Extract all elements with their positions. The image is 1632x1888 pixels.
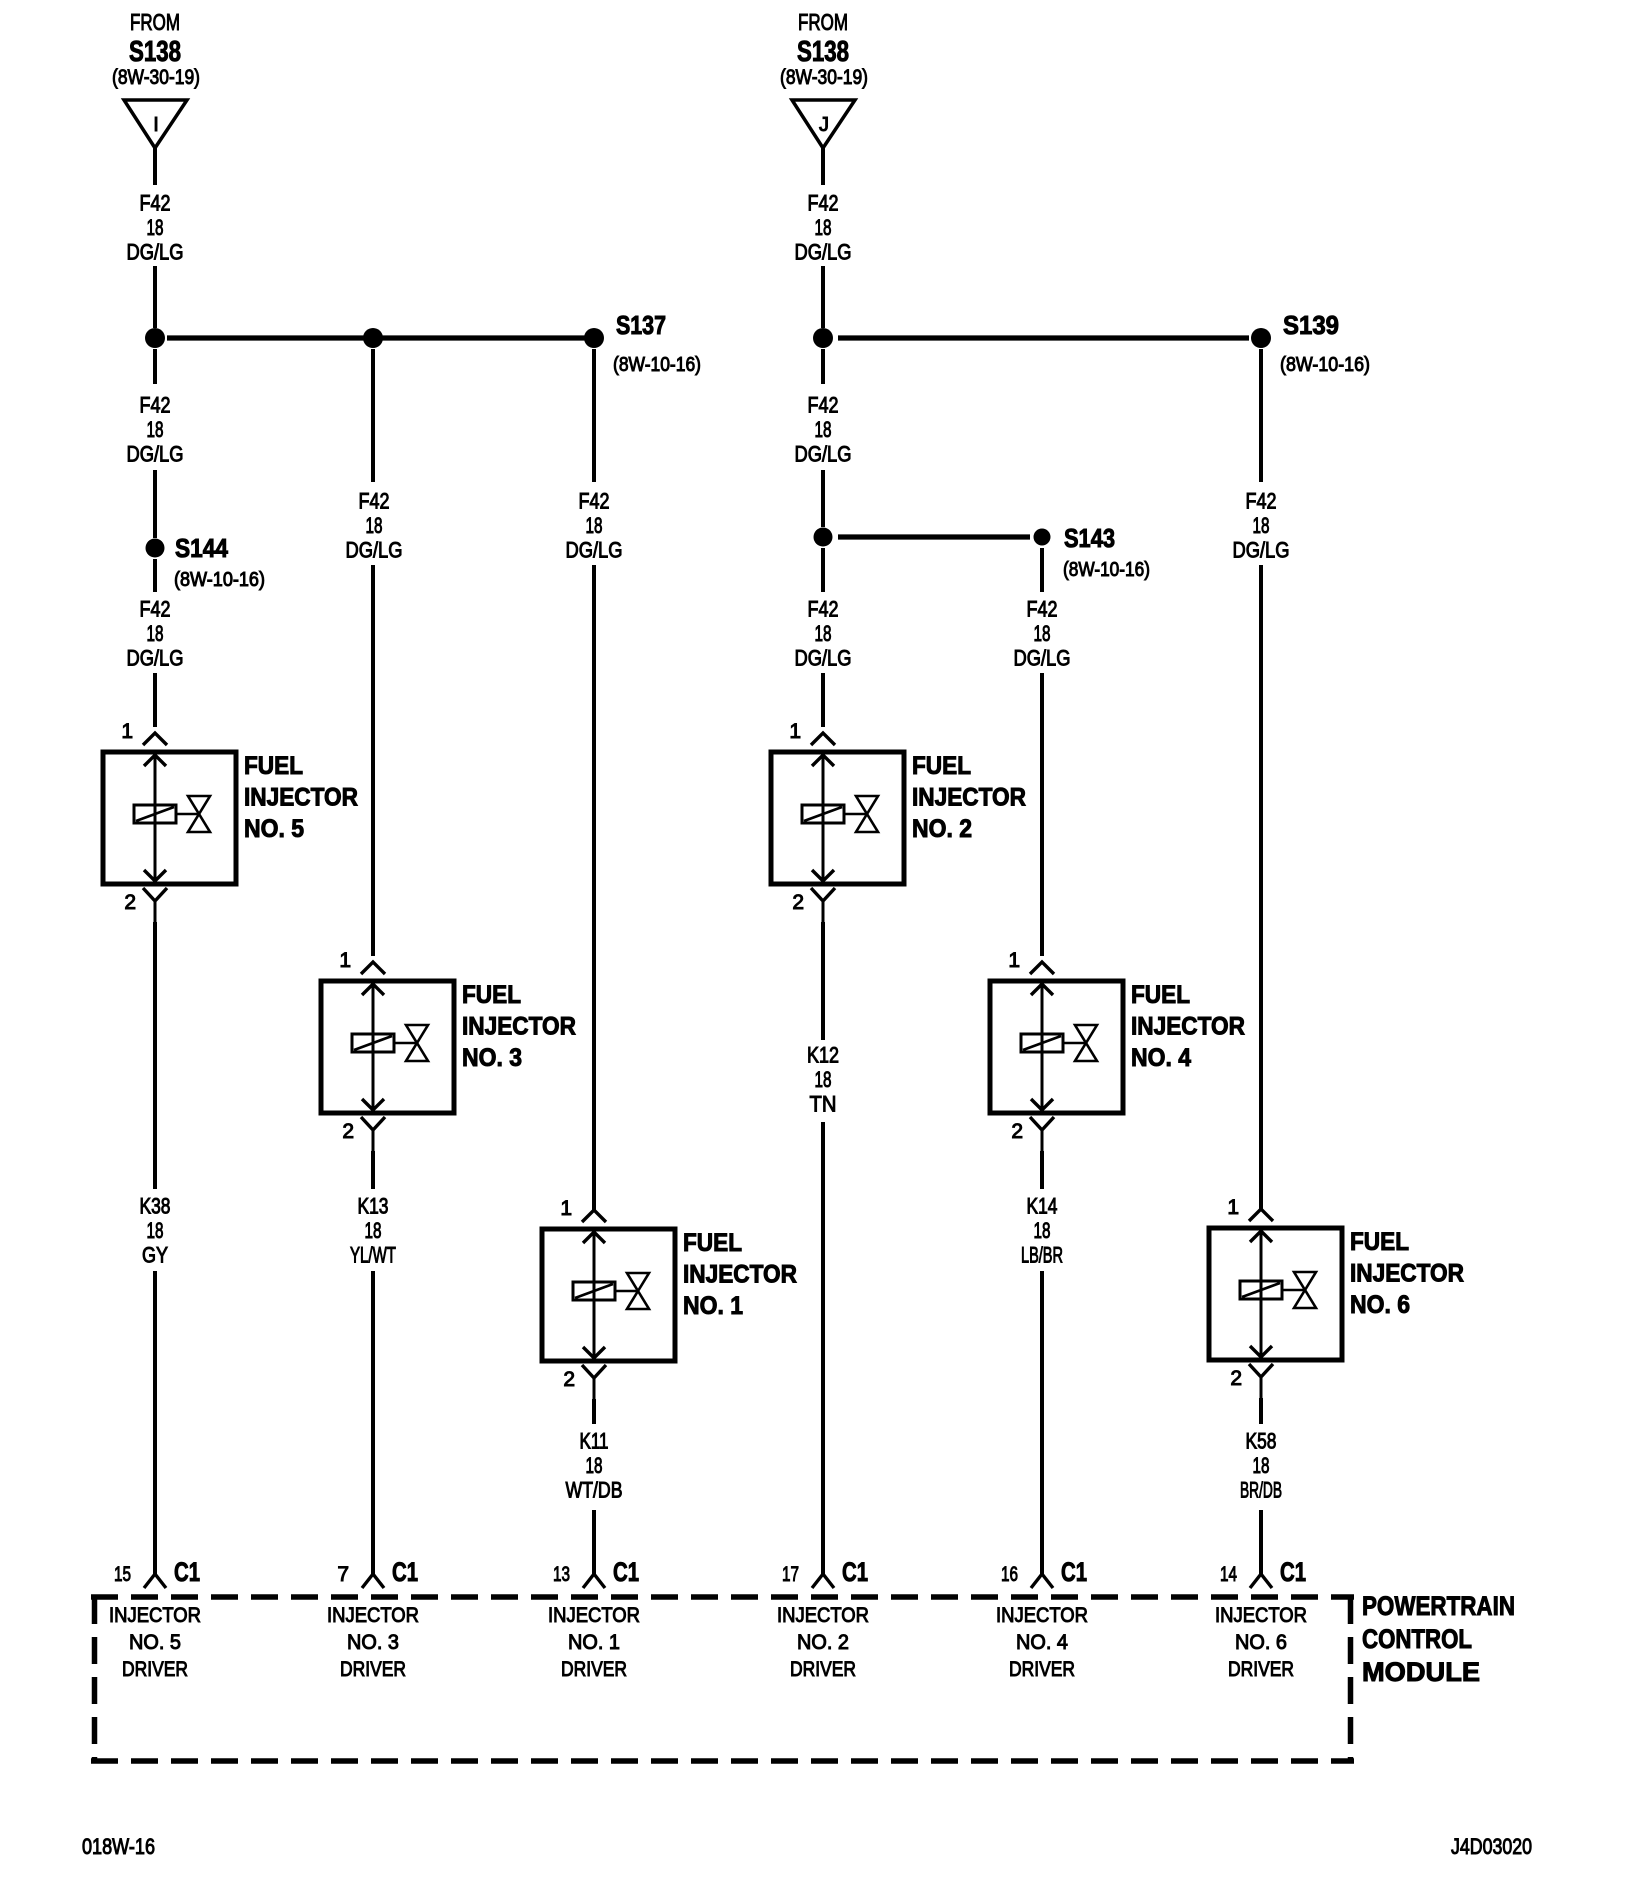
svg-text:(8W-10-16): (8W-10-16) [1280,354,1370,376]
fuel injector NO. 3 pin 2 connector (Y) [361,1117,385,1151]
fuel injector NO. 1 pin 2 connector (Y) [582,1365,606,1399]
svg-text:GY: GY [142,1243,168,1268]
PCM internal label NO. 4 DRIVER [996,1604,1088,1681]
svg-text:18: 18 [147,621,164,646]
wire F42 col1 to splice S144 [153,470,157,538]
wire F42 col2 below junction [371,349,375,482]
svg-text:CONTROL: CONTROL [1362,1624,1472,1654]
svg-text:18: 18 [1253,1453,1270,1478]
PCM internal label NO. 6 DRIVER [1215,1604,1307,1681]
wire K14 to PCM pin 16 [1040,1271,1044,1574]
svg-text:1: 1 [339,949,351,972]
svg-text:DG/LG: DG/LG [1233,538,1290,563]
svg-text:C1: C1 [842,1557,868,1587]
svg-text:16: 16 [1001,1563,1018,1586]
svg-text:FUEL: FUEL [683,1229,742,1257]
svg-text:POWERTRAIN: POWERTRAIN [1362,1591,1515,1621]
wire F42 col3 below splice S137 [592,349,596,482]
wire F42 col4 below junction [821,349,825,384]
PCM internal label NO. 3 DRIVER [327,1604,419,1681]
label splice S137 (8W-10-16) [613,310,701,376]
splice wire run to S139 [838,335,1249,340]
svg-text:DRIVER: DRIVER [1228,1658,1294,1681]
svg-text:FROM: FROM [130,9,180,35]
svg-text:18: 18 [586,513,603,538]
fuel injector NO. 2 pin 2 connector (Y) [811,888,835,922]
svg-text:INJECTOR: INJECTOR [109,1604,201,1627]
svg-text:DRIVER: DRIVER [1009,1658,1075,1681]
splice S137 dot [584,328,604,348]
svg-text:INJECTOR: INJECTOR [996,1604,1088,1627]
wire K38 to PCM pin 15 [153,1271,157,1574]
svg-text:DG/LG: DG/LG [795,442,852,467]
PCM internal label NO. 2 DRIVER [777,1604,869,1681]
svg-text:F42: F42 [808,597,839,622]
PCM connector C1 terminal fork pin 14 [1250,1574,1272,1588]
svg-text:J4D03020: J4D03020 [1451,1834,1532,1859]
wire F42 col5 to injector 4 [1040,673,1044,956]
svg-text:(8W-10-16): (8W-10-16) [613,354,701,376]
splice junction dot at S139 run col4 [813,328,833,348]
svg-text:DRIVER: DRIVER [561,1658,627,1681]
svg-text:YL/WT: YL/WT [350,1243,396,1268]
svg-text:S137: S137 [616,310,666,340]
svg-text:(8W-30-19): (8W-30-19) [112,66,200,89]
wire K58 to PCM pin 14 [1259,1510,1263,1574]
svg-text:(8W-30-19): (8W-30-19) [780,66,868,89]
svg-text:F42: F42 [808,191,839,216]
svg-text:NO. 2: NO. 2 [797,1631,849,1654]
wire F42 col2 to injector 3 [371,565,375,956]
svg-text:FUEL: FUEL [1131,981,1190,1009]
svg-text:FUEL: FUEL [244,752,303,780]
svg-text:18: 18 [1253,513,1270,538]
svg-text:NO. 5: NO. 5 [244,815,304,843]
PCM connector C1 terminal fork pin 16 [1031,1574,1053,1588]
fuel injector NO. 4 pin 1 connector (chevron) [1030,962,1054,974]
splice S139 dot [1251,328,1271,348]
svg-text:18: 18 [1034,1218,1051,1243]
wire F42 col6 to injector 6 [1259,565,1263,1209]
svg-text:18: 18 [365,1218,382,1243]
connector triangle J from S138 [792,100,855,148]
wire K13 from injector 3 pin 2 [371,1151,375,1189]
wire F42 col4 to injector 2 [821,673,825,727]
svg-text:WT/DB: WT/DB [566,1478,623,1503]
svg-text:13: 13 [553,1563,570,1586]
svg-text:K11: K11 [580,1429,609,1454]
svg-text:NO. 1: NO. 1 [683,1292,743,1320]
svg-text:INJECTOR: INJECTOR [1131,1013,1245,1041]
svg-text:FROM: FROM [798,9,848,35]
fuel injector NO. 3 (solenoid coil and nozzle valve) [321,981,454,1113]
svg-text:DG/LG: DG/LG [795,240,852,265]
svg-text:(8W-10-16): (8W-10-16) [174,569,265,591]
splice wire run to S137 [167,335,586,340]
svg-text:NO. 3: NO. 3 [347,1631,399,1654]
svg-text:DG/LG: DG/LG [127,240,184,265]
svg-text:I: I [153,114,159,136]
svg-text:7: 7 [337,1563,349,1586]
svg-text:INJECTOR: INJECTOR [462,1013,576,1041]
wire K58 from injector 6 pin 2 [1259,1398,1263,1424]
fuel injector NO. 6 pin 1 connector (chevron) [1249,1209,1273,1221]
svg-text:17: 17 [782,1563,799,1586]
svg-text:2: 2 [124,891,136,914]
PCM internal label NO. 1 DRIVER [548,1604,640,1681]
svg-text:DG/LG: DG/LG [1014,646,1071,671]
wire F42 col6 below splice S139 [1259,349,1263,482]
wire F42 col4 below S143 row [821,548,825,592]
svg-text:18: 18 [586,1453,603,1478]
fuel injector NO. 2 name label [912,752,1026,843]
svg-text:K14: K14 [1027,1194,1058,1219]
svg-text:TN: TN [810,1092,837,1117]
fuel injector NO. 1 name label [683,1229,797,1320]
svg-text:C1: C1 [613,1557,639,1587]
fuel injector NO. 2 (solenoid coil and nozzle valve) [771,752,904,884]
PCM connector C1 terminal fork pin 17 [812,1574,834,1588]
fuel injector NO. 5 pin 2 connector (Y) [143,888,167,922]
svg-text:DG/LG: DG/LG [795,646,852,671]
wire F42 col1 below junction [153,349,157,384]
svg-text:18: 18 [147,417,164,442]
svg-text:K13: K13 [358,1194,389,1219]
svg-text:18: 18 [1034,621,1051,646]
svg-text:BR/DB: BR/DB [1240,1478,1282,1503]
svg-text:DRIVER: DRIVER [122,1658,188,1681]
svg-text:2: 2 [1230,1367,1242,1390]
svg-text:LB/BR: LB/BR [1021,1243,1063,1268]
svg-text:18: 18 [147,215,164,240]
label FROM S138 (8W-30-19) left [112,9,200,89]
svg-text:NO. 5: NO. 5 [129,1631,181,1654]
svg-text:F42: F42 [140,597,171,622]
splice junction dot at S143 run col4 [814,528,833,547]
connector triangle I from S138 [124,100,187,148]
fuel injector NO. 5 pin 1 connector (chevron) [143,733,167,745]
svg-text:F42: F42 [808,393,839,418]
fuel injector NO. 4 pin 2 connector (Y) [1030,1117,1054,1151]
svg-text:18: 18 [147,1218,164,1243]
wire F42 col1 to splice row [153,266,157,328]
svg-text:INJECTOR: INJECTOR [683,1261,797,1289]
svg-text:(8W-10-16): (8W-10-16) [1063,559,1150,581]
splice S144 dot [146,539,165,558]
svg-text:DG/LG: DG/LG [566,538,623,563]
svg-text:K58: K58 [1246,1429,1277,1454]
svg-text:NO. 6: NO. 6 [1350,1291,1410,1319]
svg-text:INJECTOR: INJECTOR [244,784,358,812]
label splice S139 (8W-10-16) [1280,310,1370,376]
svg-text:INJECTOR: INJECTOR [327,1604,419,1627]
fuel injector NO. 4 name label [1131,981,1245,1072]
fuel injector NO. 5 name label [244,752,358,843]
wire F42 col5 below splice S143 [1040,548,1044,592]
svg-text:DRIVER: DRIVER [790,1658,856,1681]
fuel injector NO. 4 (solenoid coil and nozzle valve) [990,981,1123,1113]
wire K11 to PCM pin 13 [592,1510,596,1574]
svg-text:S144: S144 [175,533,228,563]
svg-text:C1: C1 [174,1557,200,1587]
svg-text:NO. 2: NO. 2 [912,815,972,843]
label FROM S138 (8W-30-19) right [780,9,868,89]
svg-text:2: 2 [792,891,804,914]
svg-text:K12: K12 [807,1043,839,1068]
fuel injector NO. 2 pin 1 connector (chevron) [811,733,835,745]
svg-text:2: 2 [342,1120,354,1143]
wire K12 to PCM pin 17 [821,1122,825,1574]
svg-text:NO. 1: NO. 1 [568,1631,620,1654]
svg-text:S138: S138 [797,36,849,68]
wire F42 from triangle I [153,148,157,185]
label splice S144 (8W-10-16) [174,533,265,591]
svg-text:C1: C1 [392,1557,418,1587]
PCM connector C1 terminal fork pin 15 [144,1574,166,1588]
svg-text:F42: F42 [579,489,610,514]
svg-text:2: 2 [1011,1120,1023,1143]
svg-text:DG/LG: DG/LG [127,646,184,671]
wire K38 from injector 5 pin 2 [153,922,157,1189]
wire F42 col4 to S143 row [821,470,825,527]
svg-text:018W-16: 018W-16 [82,1834,155,1859]
svg-text:18: 18 [815,417,832,442]
PCM internal label NO. 5 DRIVER [109,1604,201,1681]
svg-text:S138: S138 [129,36,181,68]
svg-text:NO. 6: NO. 6 [1235,1631,1287,1654]
svg-text:DG/LG: DG/LG [346,538,403,563]
svg-text:C1: C1 [1280,1557,1306,1587]
svg-text:INJECTOR: INJECTOR [912,784,1026,812]
svg-text:FUEL: FUEL [1350,1228,1409,1256]
fuel injector NO. 3 pin 1 connector (chevron) [361,962,385,974]
PCM connector C1 terminal fork pin 7 [362,1574,384,1588]
svg-text:18: 18 [815,621,832,646]
fuel injector NO. 6 (solenoid coil and nozzle valve) [1209,1228,1342,1360]
fuel injector NO. 6 pin 2 connector (Y) [1249,1364,1273,1398]
fuel injector NO. 3 name label [462,981,576,1072]
svg-text:K38: K38 [140,1194,171,1219]
svg-text:1: 1 [1008,949,1020,972]
svg-text:F42: F42 [359,489,390,514]
splice junction dot at S137 run col1 [145,328,165,348]
fuel injector NO. 1 (solenoid coil and nozzle valve) [542,1229,675,1361]
PCM connector C1 terminal fork pin 13 [583,1574,605,1588]
fuel injector NO. 1 pin 1 connector (chevron) [582,1210,606,1222]
wire K12 from injector 2 pin 2 [821,922,825,1040]
svg-text:18: 18 [815,1067,832,1092]
svg-text:INJECTOR: INJECTOR [1350,1260,1464,1288]
wire F42 col4 to splice row [821,266,825,328]
svg-text:DG/LG: DG/LG [127,442,184,467]
svg-text:S143: S143 [1064,523,1115,553]
svg-text:FUEL: FUEL [912,752,971,780]
svg-text:1: 1 [560,1197,572,1220]
svg-text:F42: F42 [140,191,171,216]
svg-text:14: 14 [1220,1563,1237,1586]
wire K11 from injector 1 pin 2 [592,1399,596,1424]
fuel injector NO. 5 (solenoid coil and nozzle valve) [103,752,236,884]
svg-text:FUEL: FUEL [462,981,521,1009]
wire K13 to PCM pin 7 [371,1271,375,1574]
svg-text:MODULE: MODULE [1362,1657,1480,1687]
svg-text:J: J [819,114,829,136]
svg-text:1: 1 [121,720,133,743]
fuel injector NO. 6 name label [1350,1228,1464,1319]
splice S143 dot [1034,529,1051,546]
svg-text:1: 1 [789,720,801,743]
wire K14 from injector 4 pin 2 [1040,1151,1044,1189]
svg-text:S139: S139 [1283,310,1339,340]
svg-text:F42: F42 [1246,489,1277,514]
powertrain control module dashed box [91,1597,1354,1761]
svg-text:1: 1 [1227,1196,1239,1219]
splice wire run to S143 [838,534,1030,539]
svg-text:F42: F42 [1027,597,1058,622]
svg-text:18: 18 [815,215,832,240]
wire F42 col1 to injector 5 [153,673,157,727]
svg-text:INJECTOR: INJECTOR [777,1604,869,1627]
label POWERTRAIN CONTROL MODULE [1362,1591,1515,1687]
label splice S143 (8W-10-16) [1063,523,1150,581]
svg-text:18: 18 [366,513,383,538]
svg-text:2: 2 [563,1368,575,1391]
svg-text:15: 15 [114,1563,131,1586]
svg-text:NO. 4: NO. 4 [1016,1631,1068,1654]
svg-text:NO. 4: NO. 4 [1131,1044,1191,1072]
svg-text:F42: F42 [140,393,171,418]
wire F42 col1 below S144 [153,559,157,592]
svg-text:INJECTOR: INJECTOR [548,1604,640,1627]
wire F42 col3 to injector 1 [592,565,596,1210]
svg-text:INJECTOR: INJECTOR [1215,1604,1307,1627]
svg-text:DRIVER: DRIVER [340,1658,406,1681]
splice junction dot col2 [363,328,383,348]
svg-text:NO. 3: NO. 3 [462,1044,522,1072]
svg-text:C1: C1 [1061,1557,1087,1587]
wire F42 from triangle J [821,148,825,185]
